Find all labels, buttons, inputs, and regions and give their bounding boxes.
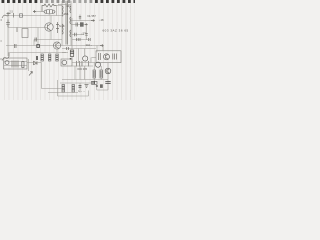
wire right rail vertical bbox=[107, 63, 109, 90]
wire drop b bbox=[79, 66, 81, 80]
resistor R10 (horizontal) bbox=[92, 81, 98, 84]
wire rail right1 bbox=[62, 52, 68, 54]
svg-text:344→: 344→ bbox=[86, 43, 93, 47]
U3 resistor bbox=[22, 62, 24, 68]
page edge specks bbox=[0, 20, 2, 59]
node plus mark bbox=[33, 10, 36, 13]
wire rail under Q1 bbox=[34, 39, 62, 41]
U3 line2 bbox=[4, 65, 27, 67]
wire vertical x34 bbox=[33, 40, 35, 46]
capacitor C7 bbox=[105, 82, 110, 84]
arrow A2 bbox=[100, 44, 104, 46]
resistor R5 bbox=[93, 70, 96, 78]
wire rail mid1 bbox=[8, 27, 44, 29]
wire pin up bbox=[102, 46, 104, 51]
wire rail low2 bbox=[60, 82, 95, 84]
wire stub left of U1 bbox=[92, 57, 97, 59]
left control box U3 bbox=[4, 58, 28, 69]
wire vertical x84.5 bbox=[84, 49, 86, 57]
resistor R1 (bypass zigzag) bbox=[42, 4, 57, 11]
diode D6 bbox=[77, 38, 81, 41]
wire upper branch bbox=[33, 11, 44, 13]
component blob M4 bbox=[100, 84, 103, 88]
opto U2 circle bbox=[62, 60, 67, 65]
ground GND1 bbox=[85, 85, 89, 88]
U3 line1 bbox=[4, 61, 27, 63]
wire stub bbox=[71, 46, 73, 60]
wire bottom frame bbox=[58, 80, 89, 96]
svg-text:NL 557: NL 557 bbox=[88, 14, 97, 18]
mains pigtail bottom bbox=[2, 53, 9, 61]
transformer T1 core bbox=[66, 1, 68, 45]
IC U1 box bbox=[96, 51, 121, 63]
capacitor C3 bbox=[16, 28, 18, 33]
transformer T1 primary bbox=[61, 1, 63, 46]
arrow tap1 end bbox=[91, 20, 95, 22]
wire vertical x78.5 bbox=[78, 49, 80, 63]
inductor L1 bbox=[44, 10, 55, 14]
wire rail mid2 bbox=[6, 45, 103, 47]
wire to transformer top bbox=[57, 6, 63, 16]
node dot N2 bbox=[70, 58, 72, 60]
wire U3 right bbox=[28, 59, 30, 71]
wire rail low3 bbox=[48, 92, 78, 94]
capacitor C8 bbox=[79, 83, 81, 93]
wire collector Q1 bbox=[50, 16, 52, 25]
wire bottom right corner bbox=[97, 85, 108, 90]
wire feedback drop bbox=[42, 63, 63, 93]
diode D7 bbox=[34, 61, 38, 64]
transformer T1 secondary bbox=[70, 1, 72, 46]
wire rail sec2 bbox=[62, 48, 96, 50]
wire bypass right leg bbox=[56, 6, 58, 16]
wire feedback top bbox=[27, 62, 42, 64]
wire drop c bbox=[84, 66, 86, 80]
wire drop a bbox=[74, 66, 76, 80]
component marks M1 bbox=[15, 44, 17, 48]
wire tap3 bbox=[72, 34, 84, 36]
opto U2 box bbox=[61, 59, 72, 66]
U3 circle1 bbox=[5, 61, 9, 65]
transistor Q3 bbox=[95, 62, 100, 67]
paper background bbox=[0, 0, 135, 100]
transistor Q2 bbox=[53, 42, 60, 49]
resistor R9 bbox=[72, 85, 75, 93]
capacitor C4 (box) bbox=[22, 29, 28, 38]
wire rail low1 bbox=[62, 79, 108, 81]
wire rail mid3 bbox=[8, 52, 66, 54]
wire tap1 bbox=[71, 20, 95, 22]
capacitor CX2 bbox=[20, 14, 23, 17]
component marks M2 bbox=[35, 38, 37, 42]
svg-text:↓ 48: ↓ 48 bbox=[99, 18, 104, 22]
svg-text:IRD 005: IRD 005 bbox=[78, 67, 88, 71]
IC U1 internal circle bbox=[104, 54, 110, 60]
svg-text:#66: #66 bbox=[64, 12, 69, 16]
transistor Q1 bbox=[45, 23, 53, 31]
ladder ticks bbox=[77, 61, 89, 67]
wire tap2 bbox=[71, 24, 86, 26]
svg-text:N.04: N.04 bbox=[59, 24, 65, 28]
capacitor C6 (snubber) bbox=[70, 50, 73, 56]
component ticks on sec2 bbox=[67, 47, 69, 50]
wire rail right3 bbox=[72, 65, 93, 67]
wire left vertical drop bbox=[7, 16, 9, 57]
wire base Q1 bbox=[44, 27, 48, 29]
transistor Q4 bbox=[105, 68, 111, 74]
wire emitter Q1 bbox=[50, 31, 52, 40]
mains pigtail top bbox=[2, 15, 9, 18]
wire vertical x86.5 bbox=[86, 26, 88, 40]
capacitor C5 blob bbox=[80, 22, 84, 26]
resistor R6 bbox=[100, 70, 103, 78]
wire rail AC top bbox=[6, 15, 58, 17]
diode D2 bbox=[56, 22, 59, 33]
diode D3 bbox=[79, 15, 81, 21]
diode D8 bars bbox=[85, 34, 88, 36]
marks tap4 end bbox=[89, 38, 91, 41]
svg-text:603 3AZ 36 65: 603 3AZ 36 65 bbox=[103, 29, 129, 33]
resistor R3 bbox=[49, 54, 51, 61]
wire R6 stubs bbox=[100, 66, 102, 80]
resistor R4 bbox=[56, 54, 58, 61]
capacitor C2 (bulk) bbox=[6, 20, 10, 28]
U3 hatches bbox=[12, 61, 18, 68]
wire tap4 bbox=[72, 39, 90, 41]
diode D1 on drop bbox=[37, 28, 39, 49]
arrow A3 bbox=[29, 72, 33, 76]
wire rail right2 bbox=[72, 62, 96, 64]
svg-text:L→→: L→→ bbox=[79, 89, 86, 93]
fuse F1 bbox=[7, 12, 11, 16]
component blob M3 bbox=[36, 56, 38, 60]
diode D4 bbox=[76, 23, 78, 27]
wire R5 stubs bbox=[93, 63, 95, 84]
wire step bbox=[96, 46, 98, 53]
transformer T1 top wire bbox=[58, 4, 71, 6]
wire Q2 down bbox=[56, 49, 58, 53]
resistor R8 bbox=[62, 85, 65, 93]
arrow A1 bbox=[85, 24, 88, 26]
svg-text:x01: x01 bbox=[67, 4, 72, 8]
resistor R2 bbox=[41, 54, 43, 61]
film sprocket marks (top edge) bbox=[2, 0, 136, 3]
node dot N1 bbox=[96, 85, 98, 87]
capacitor CX1 bbox=[13, 13, 15, 18]
diode D5 bbox=[75, 33, 77, 36]
IC U1 hatches bbox=[99, 53, 117, 60]
wire secondary drop bbox=[71, 18, 73, 46]
transistor Q5 bbox=[83, 56, 88, 61]
wire stub U1 left leg bbox=[90, 58, 92, 63]
